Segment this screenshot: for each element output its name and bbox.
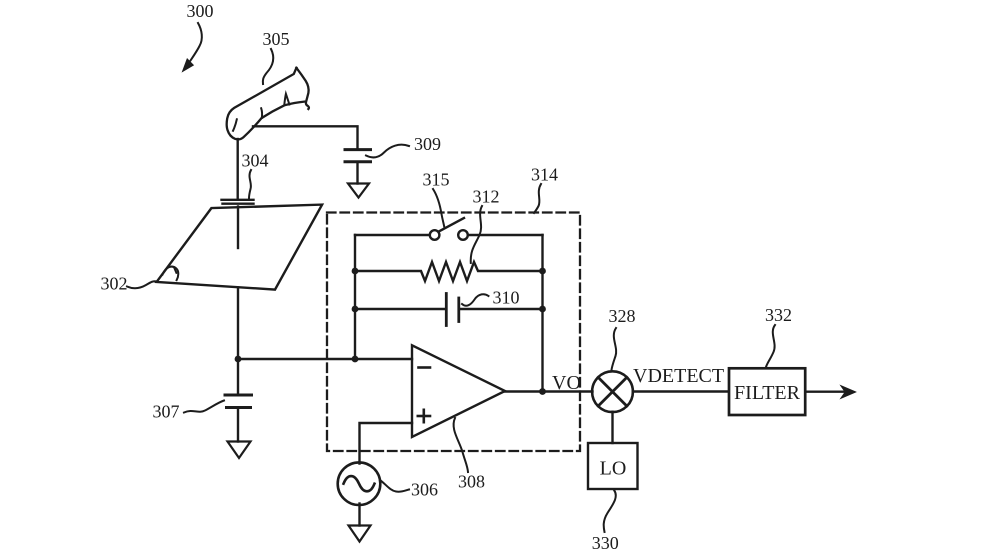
leader for 306 — [380, 480, 409, 492]
leader for 312 — [471, 206, 482, 263]
ground for 309 — [348, 184, 369, 198]
op-amp minus sign — [419, 366, 431, 369]
LO box 330 — [588, 443, 638, 489]
svg-text:330: 330 — [592, 533, 619, 553]
wire finger to C309 — [253, 126, 358, 148]
output arrowhead — [842, 386, 856, 398]
svg-text:VO: VO — [552, 372, 581, 394]
leader for 315 — [433, 189, 444, 227]
svg-text:VDETECT: VDETECT — [633, 365, 724, 387]
junction left leg / inverting input wire — [352, 356, 359, 363]
svg-text:310: 310 — [493, 288, 520, 308]
capacitor 304 — [222, 199, 254, 201]
ground for 307 — [228, 442, 251, 459]
resistor 312 — [355, 262, 543, 281]
wire C309 to ground — [356, 163, 358, 184]
feedback right leg wire — [541, 235, 543, 392]
junction left leg / resistor 312 — [352, 268, 359, 275]
svg-text:315: 315 — [423, 170, 450, 190]
leader for 305 — [263, 49, 273, 84]
switch 315 lever — [439, 218, 464, 232]
wire C307 to ground — [237, 409, 239, 442]
svg-text:309: 309 — [414, 134, 441, 154]
electrode panel 302 — [157, 205, 323, 290]
switch 315 left contact — [430, 230, 440, 240]
wire inside panel — [237, 207, 239, 249]
leader for 330 — [604, 490, 616, 532]
leader for 307 — [184, 401, 224, 413]
finger tip inner arc — [233, 119, 237, 131]
dashed box 314 — [327, 213, 580, 452]
svg-text:305: 305 — [263, 29, 290, 49]
svg-text:302: 302 — [101, 274, 128, 294]
switch 315 right contact — [458, 230, 468, 240]
svg-text:304: 304 — [242, 151, 269, 171]
svg-text:314: 314 — [531, 165, 558, 185]
capacitor 309 — [345, 148, 371, 151]
wire mixer to FILTER — [633, 390, 728, 392]
AC source 306 circle — [338, 462, 381, 505]
svg-text:312: 312 — [473, 187, 500, 207]
leader for 304 — [249, 170, 251, 198]
svg-text:FILTER: FILTER — [734, 382, 801, 404]
leader for 328 — [612, 328, 617, 370]
capacitor 307 — [225, 394, 252, 397]
svg-text:328: 328 — [609, 306, 636, 326]
wire to capacitor 310 left plate — [355, 308, 446, 310]
AC source 306 sine wave — [344, 476, 375, 491]
finger hand right edge — [296, 68, 309, 109]
leader for 302 — [127, 281, 157, 288]
wire node to op-amp inverting input — [238, 358, 412, 360]
leader for 309 — [366, 145, 409, 158]
wire from switch right contact — [468, 234, 543, 236]
wire finger to C304 — [236, 139, 238, 199]
finger 305 — [227, 68, 305, 140]
op-amp plus sign — [418, 415, 430, 418]
ground for 306 — [349, 526, 371, 542]
leader for 314 — [534, 184, 541, 213]
op-amp output wire — [504, 390, 593, 392]
wire to switch left contact — [355, 234, 430, 236]
svg-text:307: 307 — [153, 402, 180, 422]
FILTER box 332 — [729, 368, 805, 415]
leader for 310 — [462, 294, 489, 306]
junction right leg / capacitor 310 — [539, 306, 546, 313]
wire AC source to ground — [358, 504, 360, 526]
leader for 332 — [766, 325, 775, 367]
node junction — [235, 356, 242, 363]
wire node to C307 — [237, 359, 239, 394]
leader for 308 — [454, 418, 468, 472]
junction right leg / output node VO — [539, 388, 546, 395]
junction right leg / resistor 312 — [539, 268, 546, 275]
svg-text:LO: LO — [600, 458, 627, 480]
wire op-amp noninverting input — [360, 423, 413, 464]
wire panel to node — [237, 288, 239, 360]
svg-text:306: 306 — [411, 480, 438, 500]
svg-text:308: 308 — [458, 472, 485, 492]
mixer 328 circle — [592, 371, 633, 412]
junction left leg / capacitor 310 — [352, 306, 359, 313]
leader arrow for 300 — [191, 23, 202, 61]
op-amp 308 — [412, 345, 505, 437]
mixer 328 X — [598, 377, 627, 406]
wire mixer to LO — [611, 412, 613, 443]
capacitor 310 plates — [445, 294, 448, 326]
output arrow wire — [805, 391, 846, 393]
svg-text:332: 332 — [765, 305, 792, 325]
feedback left leg wire — [354, 235, 356, 359]
fingernail — [284, 94, 289, 105]
finger crease — [260, 108, 263, 118]
wire from capacitor 310 right plate — [459, 308, 543, 310]
svg-text:300: 300 — [187, 1, 214, 21]
